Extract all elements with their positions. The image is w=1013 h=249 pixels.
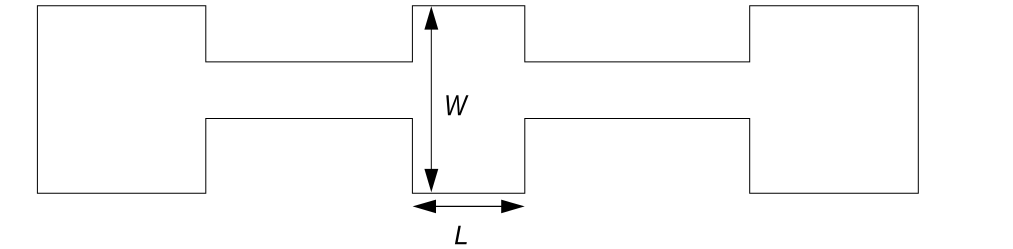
W arrowhead (down) bbox=[424, 169, 438, 192]
dimension arrow W (vertical, double-headed) bbox=[424, 6, 438, 192]
W arrow shaft bbox=[430, 28, 432, 170]
label L bbox=[455, 226, 467, 244]
dimension arrow L (horizontal, double-headed) bbox=[413, 200, 525, 214]
label W bbox=[446, 95, 468, 115]
L arrowhead (right) bbox=[501, 200, 525, 214]
L arrowhead (left) bbox=[413, 200, 436, 214]
W arrowhead (up) bbox=[424, 6, 438, 29]
resistor body outline with contact pads (dog-bone test structure) bbox=[37, 6, 918, 193]
L arrow shaft bbox=[434, 205, 503, 207]
